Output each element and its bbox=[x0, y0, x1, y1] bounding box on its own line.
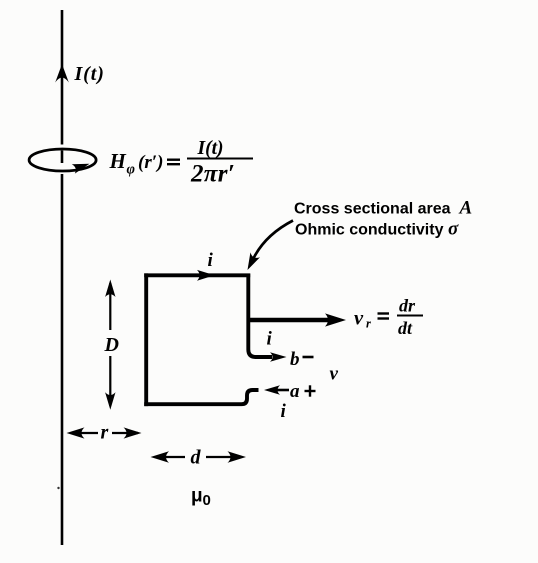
curved pointer arrow from annotation to loop corner bbox=[252, 221, 294, 263]
arrowhead: current i into terminal b bbox=[270, 352, 287, 362]
svg-text:r: r bbox=[101, 422, 109, 444]
svg-text:d: d bbox=[191, 447, 202, 469]
svg-text:r: r bbox=[366, 317, 371, 331]
svg-text:H: H bbox=[109, 149, 127, 173]
svg-text:Cross sectional area: Cross sectional area bbox=[294, 201, 451, 218]
dimension r double arrow bbox=[71, 432, 138, 434]
label v_r = dr/dt bbox=[354, 296, 423, 339]
svg-text:μ: μ bbox=[191, 486, 203, 507]
svg-text:b: b bbox=[290, 349, 300, 370]
svg-text:0: 0 bbox=[203, 492, 211, 509]
loop top conductor bbox=[144, 273, 250, 277]
svg-text:i: i bbox=[267, 329, 273, 350]
arrowhead: current i from terminal a bbox=[264, 385, 280, 395]
scan speck bbox=[57, 487, 59, 489]
arrowhead: current i on top conductor bbox=[197, 270, 215, 281]
svg-text:Ohmic conductivity: Ohmic conductivity bbox=[295, 222, 444, 239]
svg-text:v: v bbox=[330, 364, 339, 385]
label H_phi(r') = I(t)/2pi r' formula bbox=[109, 138, 254, 188]
svg-text:dt: dt bbox=[398, 318, 413, 338]
svg-text:dr: dr bbox=[399, 296, 416, 316]
svg-text:I(t): I(t) bbox=[197, 138, 224, 159]
svg-text:a: a bbox=[290, 381, 300, 402]
wire segment to terminal a bbox=[277, 389, 289, 392]
arrow: velocity v_r of movable bar bbox=[250, 318, 328, 323]
loop left conductor bbox=[144, 273, 148, 406]
svg-text:D: D bbox=[104, 334, 119, 356]
wire: vertical conductor carrying I(t) bbox=[61, 10, 64, 545]
svg-text:2πr′: 2πr′ bbox=[190, 161, 235, 188]
svg-text:i: i bbox=[281, 401, 287, 422]
dimension D double arrow bbox=[109, 283, 111, 406]
svg-text:I(t): I(t) bbox=[74, 63, 105, 85]
svg-text:σ: σ bbox=[448, 219, 459, 240]
svg-text:(r′): (r′) bbox=[138, 152, 163, 173]
svg-text:v: v bbox=[354, 308, 364, 330]
svg-text:i: i bbox=[208, 250, 214, 271]
loop right conductor (movable bar) curving to terminal b bbox=[248, 274, 272, 358]
svg-text:φ: φ bbox=[127, 162, 135, 178]
loop bottom conductor with stub up to terminal a bbox=[144, 390, 258, 404]
arrowhead: circulation direction bbox=[72, 164, 90, 174]
dimension d double arrow bbox=[156, 456, 241, 458]
annotation text: cross sectional area / ohmic conductivity bbox=[294, 198, 472, 240]
H-field circulation ellipse around wire bbox=[29, 149, 96, 171]
arrowhead: current direction on wire bbox=[55, 64, 69, 83]
svg-text:A: A bbox=[459, 198, 473, 219]
